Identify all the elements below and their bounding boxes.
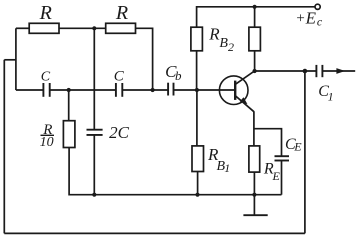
resistor RK xyxy=(249,27,261,51)
svg-text:1: 1 xyxy=(328,89,334,103)
node supply-RK junction xyxy=(253,5,257,9)
resistor R2 xyxy=(106,23,136,33)
capacitor C first xyxy=(42,83,44,97)
wire ladder segment 2 xyxy=(50,89,116,91)
svg-text:2: 2 xyxy=(228,40,234,54)
capacitor C1 xyxy=(315,65,317,77)
wire RB1 top xyxy=(196,90,198,146)
wire emitter column xyxy=(253,111,255,146)
wire output arrow line xyxy=(322,70,355,72)
wire CE branch xyxy=(254,129,282,156)
resistor RE xyxy=(249,146,260,172)
svg-text:1: 1 xyxy=(224,161,230,175)
svg-text:C: C xyxy=(41,69,51,84)
wire feedback left up xyxy=(3,60,5,234)
svg-text:E: E xyxy=(272,169,281,183)
node collector junction xyxy=(253,69,257,73)
capacitor CE xyxy=(275,155,290,157)
wire R10 top xyxy=(68,90,70,121)
wire R10 bottom to rail xyxy=(69,148,281,195)
capacitor 2C xyxy=(87,129,103,131)
resistor R10 xyxy=(63,121,75,148)
wire base segment xyxy=(174,89,235,91)
node output junction xyxy=(303,69,308,74)
wire RK top xyxy=(254,7,256,27)
wire feedback bottom xyxy=(4,232,305,234)
capacitor Cb xyxy=(167,83,169,96)
wire top supply rail xyxy=(197,6,315,8)
wire RE bottom xyxy=(253,172,255,195)
svg-text:E: E xyxy=(293,140,302,154)
wire R1 left xyxy=(16,27,29,29)
svg-text:E: E xyxy=(305,9,317,28)
wire RB1 bottom xyxy=(197,172,199,195)
wire 2C bottom xyxy=(93,135,95,195)
wire RK to collector node xyxy=(254,51,256,71)
wire R1-R2 xyxy=(59,27,106,29)
svg-text:c: c xyxy=(317,15,323,29)
svg-text:C: C xyxy=(114,68,125,84)
capacitor C second xyxy=(115,83,117,97)
wire RB2 top xyxy=(196,6,198,27)
svg-text:R: R xyxy=(39,2,52,24)
node ladder junction A xyxy=(67,88,71,92)
svg-text:10: 10 xyxy=(40,135,54,150)
wire input column xyxy=(15,28,17,90)
ground xyxy=(253,195,255,216)
svg-text:R: R xyxy=(115,2,128,24)
transistor Q1 xyxy=(219,76,248,105)
wire R2 right xyxy=(136,28,153,90)
svg-text:+: + xyxy=(295,11,305,27)
resistor R1 xyxy=(29,23,59,33)
resistor RB2 xyxy=(191,27,203,51)
wire feedback tap xyxy=(4,59,16,61)
terminal +Ec xyxy=(315,4,320,9)
wire RB2 to base node xyxy=(196,51,198,90)
wire CE bottom xyxy=(281,161,283,195)
wire output collector line xyxy=(255,70,317,72)
node rail-RE junction xyxy=(252,193,256,197)
wire ladder segment 3 xyxy=(123,89,168,91)
node rail-2C junction xyxy=(92,193,96,197)
wire mid column to 2C xyxy=(93,28,95,129)
node base junction xyxy=(195,88,199,92)
wire ladder left segment xyxy=(16,89,43,91)
svg-text:b: b xyxy=(175,68,182,83)
node ladder junction B xyxy=(151,88,155,92)
svg-text:2C: 2C xyxy=(109,123,130,142)
node rail-RB1 junction xyxy=(195,193,199,197)
node R1-R2 junction xyxy=(92,26,96,30)
resistor RB1 xyxy=(192,146,204,172)
wire feedback right down xyxy=(304,71,306,233)
